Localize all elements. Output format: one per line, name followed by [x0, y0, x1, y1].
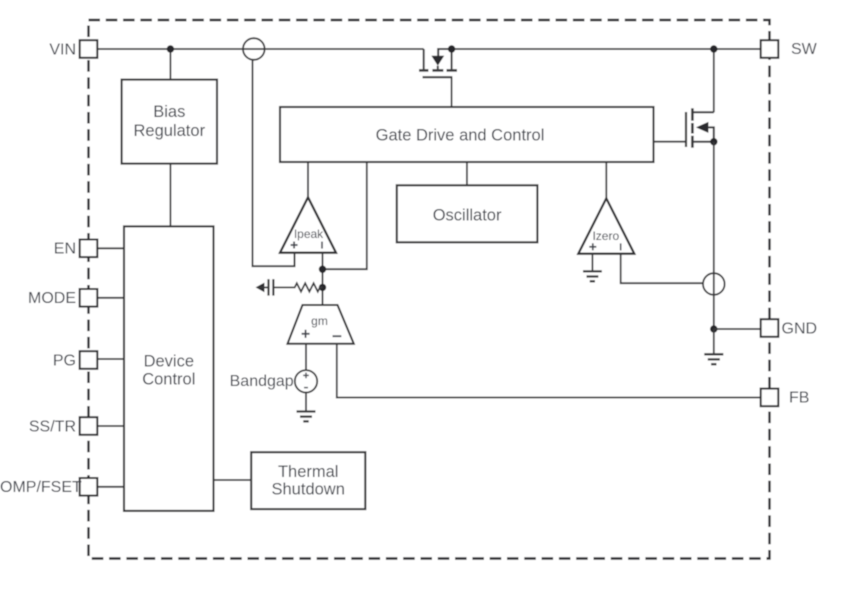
op-amp Ipeak comparator: [280, 197, 336, 252]
svg-text:GND: GND: [782, 320, 818, 337]
block Oscillator: [397, 185, 538, 242]
wire Gate Drive to Q2 gate: [654, 141, 687, 143]
svg-text:PG: PG: [53, 352, 76, 369]
svg-text:SS/TR: SS/TR: [29, 418, 76, 435]
wire VIN to Bias Regulator: [169, 49, 171, 80]
wire Device Control to Thermal Shutdown: [214, 479, 252, 481]
transistor Q1 high-side MOSFET: [419, 49, 457, 77]
wire SW rail to Q2 drain: [713, 49, 715, 112]
transistor Q2 low-side MOSFET: [686, 108, 714, 147]
IC boundary dashed border: [89, 20, 770, 559]
current sense element CS2 on ground path: [703, 273, 725, 295]
block Device Control: [124, 226, 214, 511]
wire Gate Drive to Oscillator: [466, 162, 468, 185]
svg-text:SW: SW: [791, 41, 818, 58]
wire GND node down to ground: [713, 329, 715, 354]
node Q2 source junction dot: [710, 138, 717, 145]
svg-text:Gate Drive and Control: Gate Drive and Control: [376, 126, 545, 144]
label Bandgap: [230, 373, 294, 390]
svg-text:EN: EN: [54, 241, 76, 258]
svg-text:Regulator: Regulator: [134, 122, 206, 140]
node slope junction dot lower: [319, 284, 326, 291]
pin PG: [53, 351, 97, 369]
node VIN junction dot: [167, 45, 174, 52]
wire Bias Regulator to Device Control: [169, 164, 171, 227]
pin VIN: [49, 40, 97, 58]
svg-text:Device: Device: [144, 352, 194, 370]
wire SW rail right segment: [452, 48, 761, 50]
wire Q1 gate to Gate Drive block: [451, 77, 453, 107]
svg-text:gm: gm: [311, 314, 328, 328]
block Bias Regulator: [122, 80, 217, 164]
op-amp Izero comparator: [578, 198, 634, 253]
svg-text:Bias: Bias: [153, 103, 185, 121]
svg-text:MODE: MODE: [28, 290, 76, 307]
svg-text:Ipeak: Ipeak: [294, 227, 324, 241]
voltage source bandgap reference: [295, 370, 317, 392]
pin COMP/FSET: [0, 478, 97, 496]
node slope junction dot upper: [319, 266, 326, 273]
wire Q2 source to GND node: [713, 142, 715, 329]
svg-text:Control: Control: [142, 371, 195, 389]
svg-text:Bandgap: Bandgap: [230, 373, 294, 390]
pin FB: [761, 389, 810, 407]
wire VIN rail left segment: [97, 48, 423, 50]
svg-text:Oscillator: Oscillator: [433, 206, 502, 224]
svg-text:Shutdown: Shutdown: [272, 480, 345, 498]
wire MODE pin to Device Control: [97, 297, 124, 299]
wire SS/TR pin to Device Control: [97, 425, 124, 427]
block Gate Drive and Control: [280, 107, 654, 162]
pin MODE: [28, 289, 97, 307]
wire slope node to Gate Drive: [323, 162, 367, 269]
wire bandgap to ground: [305, 393, 307, 412]
node Q1 drain junction dot on SW rail: [448, 45, 455, 52]
wire Izero - input to CS2: [621, 254, 703, 284]
svg-text:FB: FB: [789, 390, 809, 407]
svg-text:Thermal: Thermal: [278, 463, 339, 481]
wire COMP/FSET pin to Device Control: [97, 486, 124, 488]
pin SW: [761, 40, 818, 58]
wire gm - input to FB: [337, 344, 761, 398]
node GND junction dot: [710, 325, 717, 332]
block Thermal Shutdown: [251, 452, 365, 509]
wire Ipeak + input stub: [294, 253, 296, 267]
wire Ipeak output to Gate Drive: [307, 162, 309, 197]
pin GND: [761, 319, 817, 337]
wire EN pin to Device Control: [97, 247, 124, 249]
op-amp gm error amplifier: [288, 305, 354, 344]
capacitor compensation with arrow: [256, 279, 293, 295]
node SW junction dot: [710, 45, 717, 52]
svg-text:VIN: VIN: [49, 41, 76, 58]
wire GND node to GND pin: [714, 328, 761, 330]
wire Izero + input to ground: [591, 254, 593, 272]
wire Izero output to Gate Drive: [605, 162, 607, 198]
wire CS1 to Ipeak + input: [253, 60, 295, 266]
wire Ipeak - input to slope node: [322, 253, 324, 305]
wire gm + input to bandgap: [305, 344, 307, 370]
wire PG pin to Device Control: [97, 358, 124, 360]
ground Izero: [583, 271, 602, 281]
svg-text:Izero: Izero: [592, 229, 619, 243]
pin SS/TR: [29, 417, 97, 435]
current sense element CS1 on VIN rail: [243, 38, 265, 60]
ground bandgap: [297, 412, 316, 422]
ground main: [704, 354, 723, 364]
resistor slope compensation: [293, 283, 323, 291]
pin EN: [54, 240, 98, 258]
svg-text:OMP/FSET: OMP/FSET: [0, 479, 82, 496]
